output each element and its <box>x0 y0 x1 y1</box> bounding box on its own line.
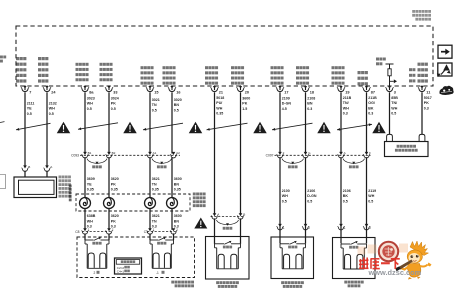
SDM connector pin 8a <box>81 85 94 94</box>
SDM internal function label above pin 17 <box>271 66 284 84</box>
wire label 2106 lower <box>307 189 317 203</box>
SDM connector pin 33 <box>105 85 118 94</box>
component pin 1 <box>277 224 285 230</box>
svg-text:YE: YE <box>27 107 32 111</box>
SDM connector pin 17 <box>276 85 289 94</box>
svg-text:2100: 2100 <box>282 189 290 193</box>
svg-text:BN: BN <box>307 102 313 106</box>
SDM connector pin 19 <box>337 85 350 94</box>
svg-text:BN: BN <box>174 219 180 223</box>
SDM connector pin 20 <box>237 85 250 94</box>
svg-text:0.3: 0.3 <box>307 107 312 111</box>
buckle pretensioner unit 2 <box>150 237 174 268</box>
svg-text:BK: BK <box>343 194 349 198</box>
wire squib lower segment <box>84 208 86 230</box>
svg-text:WH: WH <box>216 106 222 110</box>
SDM connector pin 11 <box>418 85 430 94</box>
pretensioner coils dashed boundary <box>76 194 190 211</box>
buckle pretensioner unit 2 wires <box>150 233 174 240</box>
svg-text:BK: BK <box>368 106 374 110</box>
svg-text:YE: YE <box>87 182 92 186</box>
svg-text:WH: WH <box>282 194 288 198</box>
wire label 5018 PU/ <box>216 96 224 116</box>
SDM internal function label above pin 11 <box>409 63 428 83</box>
svg-text:3600: 3600 <box>174 214 182 218</box>
svg-text:3621: 3621 <box>152 214 160 218</box>
SDM connector pin 18 <box>302 85 315 94</box>
wire label 3600 lower <box>174 214 182 228</box>
svg-text:C8: C8 <box>75 230 79 234</box>
cut-off label fragment at left edge <box>0 56 6 63</box>
svg-text:0.5: 0.5 <box>343 199 348 203</box>
svg-text:2132: 2132 <box>49 101 57 105</box>
SDM connector pin 3 <box>386 85 396 94</box>
wire 2132 pin24 to DIC A <box>46 92 48 167</box>
svg-text:19: 19 <box>345 90 349 94</box>
SDM module name label <box>412 10 431 21</box>
watermark red stamp <box>379 242 398 261</box>
wire label 2100 lower <box>282 189 290 203</box>
svg-text:0.35: 0.35 <box>111 188 118 192</box>
label under retractor box A <box>216 281 239 288</box>
off-page arrow icon <box>438 45 452 58</box>
svg-text:0.3: 0.3 <box>368 112 373 116</box>
svg-text:PU/: PU/ <box>216 101 222 105</box>
buckle pretensioner unit 1 <box>85 237 109 268</box>
svg-text:4.5: 4.5 <box>282 107 287 111</box>
svg-text:WH: WH <box>87 219 93 223</box>
svg-text:0.5: 0.5 <box>152 108 157 112</box>
footnote connector code box <box>115 258 142 274</box>
squib coil igniter <box>145 198 156 209</box>
wire label 3600 <box>174 177 182 191</box>
inline connector C1 buckle right <box>144 227 179 234</box>
wire label 2119 lower <box>368 189 376 203</box>
wire label 3621 lower <box>152 214 160 228</box>
DIC label <box>59 176 71 198</box>
warning caution triangle <box>372 122 386 134</box>
svg-text:3: 3 <box>394 90 396 94</box>
wire C097 upper segment <box>366 92 368 153</box>
svg-text:2: 2 <box>369 226 371 230</box>
svg-text:B1: B1 <box>88 151 92 155</box>
svg-text:PK: PK <box>111 182 116 186</box>
wire C097 lower segment <box>305 157 307 243</box>
svg-text:211B: 211B <box>343 96 352 100</box>
svg-text:0.5: 0.5 <box>87 107 92 111</box>
wire label 3621 <box>152 177 160 191</box>
svg-text:1.5: 1.5 <box>242 107 247 111</box>
svg-text:2106: 2106 <box>343 189 351 193</box>
wire 5017 pin11 to seat belt indicator <box>421 92 423 134</box>
coil box left label <box>69 185 72 202</box>
wire squib circuit upper segment <box>149 92 151 153</box>
svg-text:-1: -1 <box>156 271 159 275</box>
wire squib lower segment <box>171 208 173 230</box>
wire pretensioner A upper segment <box>214 92 216 215</box>
label under pretensioner dashed box <box>171 281 194 288</box>
wire label 2106 lower <box>343 189 351 203</box>
retractor pretensioner box C internal switch and comb <box>341 241 367 269</box>
svg-text:C097: C097 <box>266 154 274 158</box>
wire label 3609 <box>87 177 95 191</box>
svg-text:B2: B2 <box>112 151 116 155</box>
shorting bar jumper C097 A-F <box>343 159 365 169</box>
wire C097 lower segment <box>366 157 368 243</box>
svg-text:BN: BN <box>174 182 180 186</box>
svg-text:11: 11 <box>426 90 430 94</box>
shorting bar jumper A-B <box>217 220 239 230</box>
svg-text:7: 7 <box>29 90 31 94</box>
svg-text:3600: 3600 <box>242 96 250 100</box>
retractor pretensioner box A <box>206 237 250 280</box>
svg-text:638B: 638B <box>87 214 96 218</box>
svg-text:21: 21 <box>219 90 223 94</box>
squib coil igniter <box>167 198 178 209</box>
svg-text:TN: TN <box>152 103 157 107</box>
wire label 3020 BN <box>174 98 182 112</box>
svg-text:3621: 3621 <box>152 177 160 181</box>
svg-text:WH: WH <box>343 106 349 110</box>
wire label 3620 lower <box>111 214 119 228</box>
SDM internal function label above pin 24 <box>38 57 48 83</box>
svg-text:C093: C093 <box>71 154 79 158</box>
svg-text:5018: 5018 <box>216 96 224 100</box>
wire label 211B TN/ <box>343 96 352 116</box>
wire 2111 pin7 to DIC B <box>24 92 26 167</box>
watermark mascot <box>395 241 431 280</box>
cut-off wire tick at left edge <box>0 121 5 124</box>
SDM connector pin 15 <box>146 85 159 94</box>
svg-text:3620: 3620 <box>111 177 119 181</box>
wire label 211B OG/ <box>368 96 377 116</box>
watermark faded orange characters <box>358 244 409 255</box>
svg-text:2119: 2119 <box>368 189 376 193</box>
wire C097 lower segment <box>279 157 281 243</box>
svg-text:WH: WH <box>49 107 55 111</box>
svg-text:3020: 3020 <box>174 98 182 102</box>
coil box right label <box>193 193 206 208</box>
cut-off box fragment at left edge <box>0 175 6 189</box>
svg-text:www.dzsc.com: www.dzsc.com <box>368 268 422 277</box>
svg-text:PK: PK <box>424 101 429 105</box>
svg-text:2108: 2108 <box>307 96 315 100</box>
SDM airbag sensing and diagnostic module boundary <box>16 26 433 86</box>
svg-text:A2: A2 <box>176 151 180 155</box>
SDM connector pin 21 <box>211 85 224 94</box>
svg-text:C4=1: C4=1 <box>117 270 125 274</box>
watermark red brand text <box>359 258 400 270</box>
wire squib circuit upper segment <box>171 92 173 153</box>
svg-text:0.5: 0.5 <box>307 199 312 203</box>
svg-text:3620: 3620 <box>111 214 119 218</box>
SDM internal function label above pin 7 <box>16 57 26 83</box>
svg-text:0.5: 0.5 <box>49 112 54 116</box>
svg-text:1: 1 <box>344 226 346 230</box>
wire squib middle segment <box>108 157 110 198</box>
component pin 2 <box>302 224 310 230</box>
twisted pair arrow <box>207 123 248 130</box>
component pin 1 <box>338 224 346 230</box>
SDM internal function label above pin 33 <box>100 63 113 81</box>
wire label 638B lower <box>87 214 96 228</box>
svg-text:WH: WH <box>391 106 397 110</box>
DIC display box <box>14 177 57 198</box>
component pin 2 <box>363 224 371 230</box>
wire squib middle segment <box>171 157 173 198</box>
svg-text:2: 2 <box>94 271 96 275</box>
svg-text:0.5: 0.5 <box>391 112 396 116</box>
svg-text:3021: 3021 <box>152 98 160 102</box>
wire squib circuit upper segment <box>84 92 86 153</box>
svg-text:PK: PK <box>111 219 116 223</box>
svg-text:D-GN: D-GN <box>282 102 292 106</box>
svg-text:2: 2 <box>283 151 285 155</box>
svg-text:A1: A1 <box>153 151 157 155</box>
SDM internal function label above pin 16 <box>163 66 176 84</box>
svg-text:0.5: 0.5 <box>174 108 179 112</box>
svg-text:0.3: 0.3 <box>343 112 348 116</box>
SDM internal function label above pin 3 <box>376 58 386 66</box>
wire label 3620 <box>111 177 119 191</box>
twisted pair arrow <box>78 123 118 130</box>
wire label 3023 WH <box>87 96 95 110</box>
warning caution triangle <box>253 122 267 134</box>
squib coil igniter <box>80 198 91 209</box>
svg-text:20: 20 <box>245 90 249 94</box>
SDM internal fuse and feed above pin 3 <box>386 64 398 86</box>
svg-text:0.5: 0.5 <box>368 199 373 203</box>
buckle unit 2 stage label <box>156 271 165 275</box>
svg-text:3024: 3024 <box>111 96 119 100</box>
warning caution triangle <box>123 122 137 134</box>
svg-text:5017: 5017 <box>424 96 432 100</box>
svg-text:15: 15 <box>154 90 158 94</box>
svg-text:211B: 211B <box>368 96 377 100</box>
SDM internal function label above pin 21 <box>205 66 218 84</box>
svg-text:WH: WH <box>368 194 374 198</box>
warning caution triangle <box>189 122 203 134</box>
SDM internal function label above pin 8a <box>76 63 89 81</box>
DIC pin B <box>22 165 31 172</box>
svg-text:17: 17 <box>284 90 288 94</box>
wire 85B pin3 to seat belt indicator <box>389 92 391 134</box>
twisted pair arrow <box>143 123 183 130</box>
twisted pair arrow <box>16 123 51 130</box>
wire squib lower segment <box>149 208 151 230</box>
svg-text:F: F <box>369 151 371 155</box>
wire DIC stubs <box>25 171 47 177</box>
SDM connector pin 24 <box>43 85 56 94</box>
wire label 3024 PK <box>111 96 119 110</box>
SDM internal function label above pin 87 <box>358 71 368 85</box>
wires A-B pair into retractor box <box>215 218 241 243</box>
SDM internal function label above pin 19 <box>332 66 345 84</box>
inline connector pair A-B <box>211 212 246 219</box>
SDM connector pin 87 <box>363 85 376 94</box>
retractor pretensioner box B internal switch and comb <box>280 241 306 269</box>
wire squib lower segment <box>108 208 110 230</box>
svg-text:TN: TN <box>152 219 157 223</box>
indicator lamp terminal left <box>387 134 393 141</box>
inline connector C093 <box>71 151 180 158</box>
svg-text:2: 2 <box>308 226 310 230</box>
buckle unit 1 stage label <box>94 271 100 275</box>
SDM internal function label above pin 15 <box>141 66 154 84</box>
wire C097 lower segment <box>340 157 342 243</box>
svg-text:18: 18 <box>310 90 314 94</box>
svg-text:D-GN: D-GN <box>307 194 317 198</box>
connector view icon <box>437 63 452 77</box>
svg-text:0.5: 0.5 <box>282 199 287 203</box>
wire label 2109 D-GN <box>282 96 292 110</box>
wire squib middle segment <box>149 157 151 198</box>
twisted pair arrow <box>337 123 372 130</box>
wire C097 upper segment <box>279 92 281 153</box>
wire label 85B TN/ <box>391 96 398 116</box>
watermark url text <box>368 268 422 277</box>
inline connector C208 buckle left <box>75 227 114 234</box>
wire label 2111 YE <box>27 101 35 115</box>
svg-text:PK: PK <box>242 102 247 106</box>
seat belt pretensioner dashed boundary <box>77 237 195 278</box>
svg-text:0.5: 0.5 <box>111 107 116 111</box>
wire C097 upper segment <box>305 92 307 153</box>
svg-text:0.35: 0.35 <box>87 188 94 192</box>
wire squib circuit upper segment <box>108 92 110 153</box>
seat belt indicator box <box>385 142 429 157</box>
wire label 3600 PK <box>242 96 250 110</box>
shorting bar jumper C097 2-G <box>282 159 304 169</box>
wire C097 upper segment <box>340 92 342 153</box>
wire pretensioner A upper segment <box>240 92 242 215</box>
shorting bar jumper A1-A2 <box>152 159 172 169</box>
svg-text:TN/: TN/ <box>391 101 397 105</box>
warning caution triangle <box>57 122 71 134</box>
wire label 3021 TN <box>152 98 160 112</box>
svg-text:B: B <box>243 212 245 216</box>
wire label 2108 BN <box>307 96 315 110</box>
squib coil igniter <box>104 198 115 209</box>
wire squib middle segment <box>84 157 86 198</box>
retractor pretensioner box A internal switch and comb <box>215 241 241 269</box>
svg-text:OG/: OG/ <box>368 101 375 105</box>
shorting bar jumper B1-B2 <box>87 159 107 169</box>
label under retractor box B <box>281 281 304 288</box>
svg-text:0.35: 0.35 <box>152 188 159 192</box>
svg-text:0.3: 0.3 <box>424 106 429 110</box>
SDM internal function label above pin 20 <box>231 66 244 84</box>
inline connector C097 <box>266 151 371 158</box>
svg-text:TN: TN <box>152 182 157 186</box>
DIC pin A <box>44 165 54 172</box>
svg-text:BN: BN <box>174 103 180 107</box>
indicator lamp terminal right <box>419 134 425 141</box>
warning caution triangle lower <box>194 218 207 229</box>
svg-text:0.5: 0.5 <box>27 112 32 116</box>
svg-text:2109: 2109 <box>282 96 290 100</box>
svg-text:B: B <box>28 165 30 169</box>
svg-text:0.35: 0.35 <box>216 112 223 116</box>
svg-text:2111: 2111 <box>27 101 35 105</box>
svg-text:0.35: 0.35 <box>174 188 181 192</box>
SDM internal function label above pin 18 <box>296 66 309 84</box>
twisted pair arrow <box>272 123 313 130</box>
label under retractor box C <box>344 281 363 288</box>
svg-text:3023: 3023 <box>87 96 95 100</box>
buckle pretensioner unit 1 wires <box>85 233 109 240</box>
wire label 2132 WH <box>49 101 57 115</box>
svg-text:33: 33 <box>113 90 117 94</box>
warning caution triangle <box>317 122 331 134</box>
svg-text:PK: PK <box>111 102 116 106</box>
svg-text:85B: 85B <box>391 96 398 100</box>
svg-text:16: 16 <box>176 90 180 94</box>
SDM connector pin 7 <box>21 85 31 94</box>
svg-text:TN/: TN/ <box>343 101 349 105</box>
svg-text:2106: 2106 <box>307 189 315 193</box>
wire label 5017 PK <box>424 96 432 110</box>
svg-text:WH: WH <box>87 102 93 106</box>
svg-text:87: 87 <box>371 90 375 94</box>
retractor pretensioner box B <box>271 237 314 279</box>
svg-text:1: 1 <box>283 226 285 230</box>
small handle icon <box>439 86 453 95</box>
svg-text:3609: 3609 <box>87 177 95 181</box>
svg-text:3600: 3600 <box>174 177 182 181</box>
SDM connector pin 16 <box>168 85 181 94</box>
retractor pretensioner box C <box>333 238 376 279</box>
